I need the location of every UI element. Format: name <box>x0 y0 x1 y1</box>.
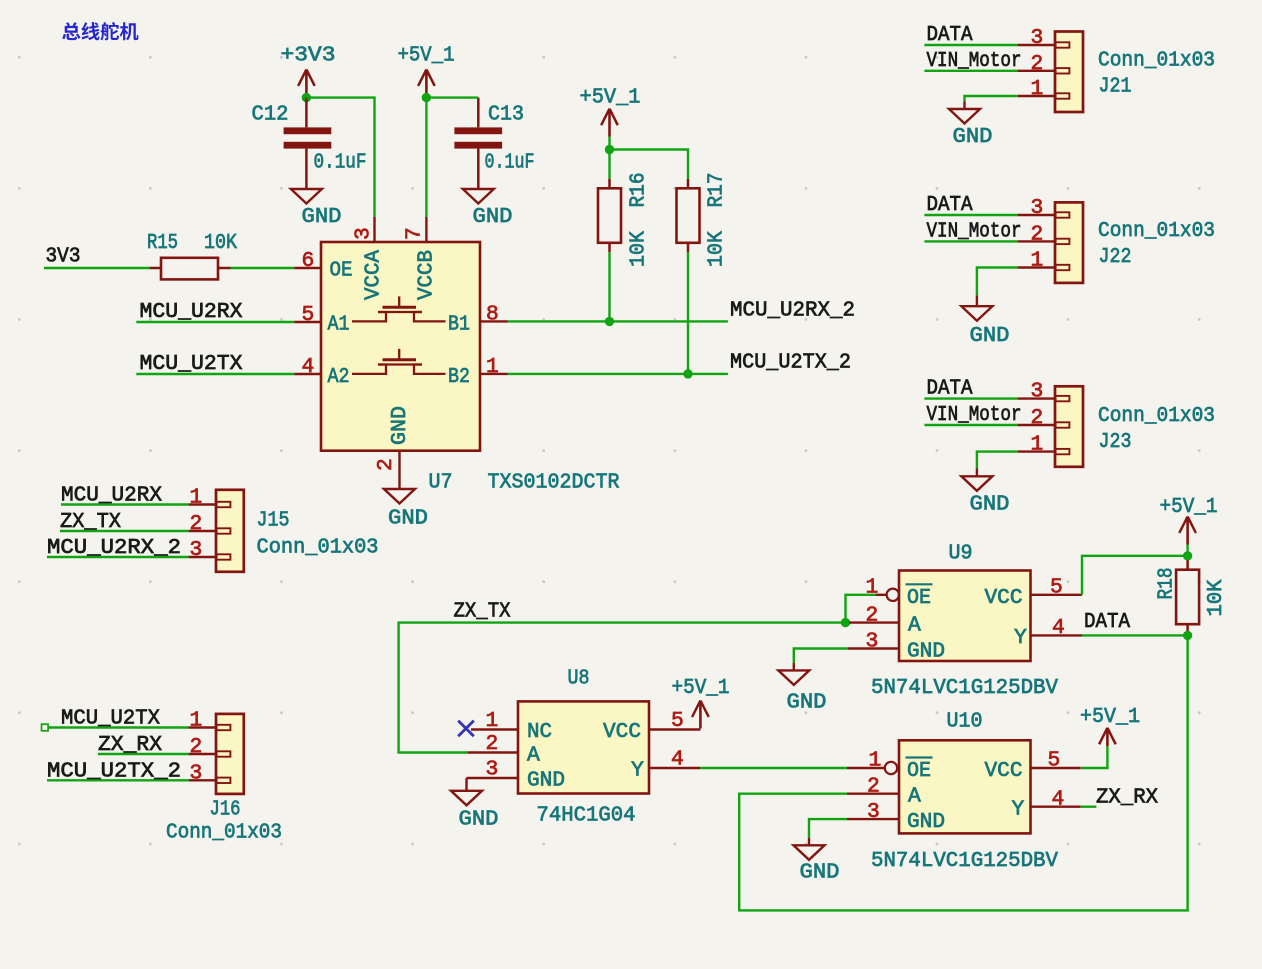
J16 pin 3 wire MCU_U2TX_2 <box>47 761 216 785</box>
junction R17/B2 node <box>683 369 692 378</box>
U10 pin 1 OE bubble <box>847 749 897 775</box>
svg-text:VIN_Motor: VIN_Motor <box>927 403 1022 427</box>
wire ZX_TX net <box>399 623 846 753</box>
svg-text:J15: J15 <box>257 509 290 533</box>
svg-text:ZX_RX: ZX_RX <box>1096 786 1158 810</box>
power symbol +5V_1 (U7) <box>418 69 435 97</box>
svg-text:DATA: DATA <box>927 23 973 47</box>
svg-text:3: 3 <box>866 630 879 654</box>
svg-text:B1: B1 <box>448 313 470 337</box>
junction +5V_1 U7 node <box>422 93 431 102</box>
svg-text:2: 2 <box>190 512 203 536</box>
svg-text:U10: U10 <box>947 710 983 734</box>
svg-text:GND: GND <box>459 808 499 832</box>
svg-text:+3V3: +3V3 <box>281 44 336 68</box>
wire R16 to B1 <box>608 252 610 321</box>
resistor R16 leads <box>608 179 611 252</box>
J22 pin 3 wire DATA <box>924 196 1055 220</box>
svg-text:DATA: DATA <box>927 377 973 401</box>
svg-text:MCU_U2TX: MCU_U2TX <box>140 352 243 376</box>
U9 pin 4 Y <box>1031 616 1083 640</box>
svg-text:2: 2 <box>1031 52 1044 76</box>
J22 pin 2 wire VIN_Motor <box>924 222 1055 246</box>
wire MCU_U2RX <box>136 321 294 323</box>
wire DATA loop to U10 A <box>739 635 1187 910</box>
svg-text:10K: 10K <box>1204 579 1228 616</box>
svg-text:1: 1 <box>1031 249 1044 273</box>
resistor R17 body <box>677 188 700 243</box>
svg-text:U8: U8 <box>568 667 590 691</box>
U10 pin 2 A <box>847 775 899 799</box>
svg-text:5: 5 <box>671 709 684 733</box>
U7 pin 5 A1 <box>294 303 321 327</box>
junction +5V_1/R18 node <box>1183 551 1192 560</box>
wire B2 net <box>508 373 728 375</box>
svg-text:10K: 10K <box>204 231 237 255</box>
svg-text:5: 5 <box>302 303 315 327</box>
svg-text:2: 2 <box>867 775 880 799</box>
svg-text:VIN_Motor: VIN_Motor <box>927 49 1022 73</box>
junction DATA/R18 node <box>1183 631 1192 640</box>
svg-text:+5V_1: +5V_1 <box>398 44 455 68</box>
U10 pin names <box>906 758 1025 835</box>
svg-text:A: A <box>527 744 540 768</box>
svg-text:VIN_Motor: VIN_Motor <box>927 219 1022 243</box>
svg-text:NC: NC <box>527 720 552 744</box>
svg-text:OE: OE <box>330 259 353 283</box>
svg-text:10K: 10K <box>627 231 651 267</box>
svg-text:2: 2 <box>190 735 203 759</box>
svg-text:4: 4 <box>1052 788 1065 812</box>
ground symbol J23 GND <box>961 476 1009 516</box>
U7 pin 2 GND <box>374 451 400 489</box>
U9 pin 2 A <box>849 604 899 628</box>
svg-text:3: 3 <box>1031 26 1044 50</box>
svg-text:+5V_1: +5V_1 <box>1160 495 1218 519</box>
U7 pin names <box>328 250 471 445</box>
IC U10 body <box>899 740 1031 833</box>
J21 pin 2 wire VIN_Motor <box>924 52 1055 76</box>
svg-text:Conn_01x03: Conn_01x03 <box>1098 404 1215 428</box>
wire junction to R16 <box>608 150 610 179</box>
U8 pin 3 GND <box>467 758 519 791</box>
svg-text:1: 1 <box>190 709 203 733</box>
svg-text:J22: J22 <box>1099 245 1132 269</box>
svg-text:GND: GND <box>527 769 565 793</box>
wire +5V_1 branch to R17 <box>610 150 689 179</box>
svg-text:VCC: VCC <box>603 720 641 744</box>
U8 pin 2 A <box>468 732 518 756</box>
wire R18 to DATA node <box>1186 633 1188 635</box>
wire MCU_U2TX <box>136 373 294 375</box>
junction R16/B1 node <box>605 317 614 326</box>
wire U8 Y to U10 pin1 <box>700 767 847 769</box>
U7 pin 1 B2 <box>480 355 508 379</box>
svg-text:3: 3 <box>867 800 880 824</box>
J23 pin 3 wire DATA <box>924 380 1055 404</box>
ground symbol J22 GND <box>961 306 1009 348</box>
svg-text:ZX_TX: ZX_TX <box>60 510 121 534</box>
svg-text:3: 3 <box>486 758 499 782</box>
wire U9 gnd link <box>794 649 848 664</box>
capacitor C12 <box>284 98 332 189</box>
svg-text:MCU_U2RX_2: MCU_U2RX_2 <box>47 536 181 560</box>
svg-text:1: 1 <box>869 749 882 773</box>
svg-text:4: 4 <box>1052 616 1065 640</box>
wire B1 net <box>508 320 728 322</box>
U8 pin 4 Y <box>649 748 700 772</box>
U9 pin 1 OE bubble <box>866 576 900 602</box>
svg-text:A: A <box>908 614 921 638</box>
svg-text:U9: U9 <box>949 542 973 566</box>
svg-text:1: 1 <box>1031 77 1044 101</box>
wire R17 to B2 <box>687 252 689 374</box>
svg-text:ZX_RX: ZX_RX <box>98 733 162 757</box>
svg-text:8: 8 <box>486 303 499 327</box>
svg-text:3: 3 <box>1031 196 1044 220</box>
svg-text:R18: R18 <box>1155 568 1179 600</box>
svg-text:GND: GND <box>302 205 342 229</box>
J22 pin 1 wire to GND <box>977 249 1055 307</box>
svg-text:3: 3 <box>1031 380 1044 404</box>
U7 pin 8 B1 <box>480 303 508 327</box>
svg-text:J16: J16 <box>210 798 241 822</box>
power symbol +3V3 <box>298 69 315 97</box>
IC U7 TXS0102DCTR body <box>321 242 480 451</box>
svg-text:10K: 10K <box>705 231 729 267</box>
svg-text:R16: R16 <box>627 173 651 208</box>
J23 pin 2 wire VIN_Motor <box>924 406 1055 430</box>
ground symbol J21 GND <box>949 109 993 149</box>
U10 gnd stub <box>808 838 810 845</box>
connector J22 body <box>1055 202 1083 283</box>
svg-text:1: 1 <box>1031 433 1044 457</box>
svg-text:OE: OE <box>907 759 931 783</box>
svg-text:Y: Y <box>1012 798 1025 822</box>
svg-text:0.1uF: 0.1uF <box>314 151 367 175</box>
U7 pin 3 VCCA <box>352 217 376 242</box>
ground symbol C12 GND <box>291 189 342 229</box>
ground symbol U10 GND <box>794 845 840 884</box>
svg-text:Y: Y <box>1014 626 1027 650</box>
svg-text:C12: C12 <box>252 103 289 127</box>
svg-text:0.1uF: 0.1uF <box>485 151 535 175</box>
IC U8 74HC1G04 body <box>518 701 649 793</box>
svg-text:1: 1 <box>486 355 499 379</box>
ground symbol C13 GND <box>463 189 513 229</box>
svg-text:2: 2 <box>866 604 879 628</box>
wire +3V3 to VCCA <box>306 98 374 217</box>
ground symbol U8 GND <box>451 791 499 832</box>
svg-text:GND: GND <box>907 640 945 664</box>
svg-text:GND: GND <box>907 810 945 834</box>
svg-text:VCC: VCC <box>985 759 1023 783</box>
svg-text:B2: B2 <box>448 365 470 389</box>
wire U10 gnd link <box>809 819 847 838</box>
J21 pin 3 wire DATA <box>924 26 1055 50</box>
svg-text:A2: A2 <box>328 365 350 389</box>
wire +5V_1 to C13 <box>426 96 478 98</box>
junction +3V3 node <box>302 93 311 102</box>
svg-text:1: 1 <box>190 486 203 510</box>
wire U10 VCC to +5V_1 <box>1081 746 1108 768</box>
connector J16 body <box>216 714 244 794</box>
pass transistor U7 ch2 <box>352 349 446 374</box>
U7 pin 4 A2 <box>294 355 321 379</box>
svg-text:R17: R17 <box>705 173 729 208</box>
svg-text:4: 4 <box>671 748 684 772</box>
U7 pin 7 VCCB <box>403 217 427 242</box>
dangling wire end square (J16 pin1) <box>42 724 49 731</box>
J23 pin 1 wire to GND <box>977 433 1055 477</box>
svg-text:2: 2 <box>1031 406 1044 430</box>
no-connect X (U8 pin1) <box>458 721 474 737</box>
J21 pin 1 wire to GND <box>965 77 1056 109</box>
svg-text:+5V_1: +5V_1 <box>1080 705 1140 729</box>
svg-text:A1: A1 <box>328 313 350 337</box>
svg-text:MCU_U2TX_2: MCU_U2TX_2 <box>47 759 181 783</box>
pass transistor U7 ch1 <box>352 296 446 321</box>
U9 pin 3 GND <box>848 630 899 654</box>
U8 pin 1 NC <box>471 709 518 733</box>
power symbol +5V_1 (U8) <box>692 701 709 729</box>
junction +5V_1 R16/R17 node <box>605 145 614 154</box>
ground symbol U7 GND <box>384 489 428 531</box>
U8 pin names <box>527 720 644 793</box>
resistor R18 body <box>1176 570 1199 625</box>
svg-text:R15: R15 <box>147 231 178 255</box>
svg-text:MCU_U2RX_2: MCU_U2RX_2 <box>730 299 855 323</box>
power symbol +5V_1 (R18) <box>1179 517 1196 545</box>
svg-text:3: 3 <box>190 761 203 785</box>
svg-text:+5V_1: +5V_1 <box>672 676 730 700</box>
svg-text:Y: Y <box>631 759 644 783</box>
svg-text:TXS0102DCTR: TXS0102DCTR <box>488 471 620 495</box>
resistor R16 body <box>598 188 621 243</box>
connector J15 body <box>216 490 244 572</box>
sheet title 总线舵机 <box>62 22 138 41</box>
svg-text:GND: GND <box>800 861 840 885</box>
svg-text:OE: OE <box>907 586 931 610</box>
svg-text:5N74LVC1G125DBV: 5N74LVC1G125DBV <box>871 849 1058 873</box>
svg-text:VCC: VCC <box>985 586 1023 610</box>
wire U9 VCC to +5V_1 <box>1082 556 1188 595</box>
svg-text:MCU_U2TX_2: MCU_U2TX_2 <box>730 351 851 375</box>
J15 pin 1 wire MCU_U2RX <box>61 486 216 510</box>
svg-text:ZX_TX: ZX_TX <box>454 600 511 624</box>
svg-text:Conn_01x03: Conn_01x03 <box>257 536 379 560</box>
svg-text:GND: GND <box>787 691 827 715</box>
svg-text:3V3: 3V3 <box>46 245 81 269</box>
resistor R15 body <box>161 258 218 280</box>
svg-text:GND: GND <box>953 125 993 149</box>
svg-text:C13: C13 <box>488 103 524 127</box>
J16 pin 1 wire MCU_U2TX <box>48 709 216 733</box>
svg-text:DATA: DATA <box>1084 610 1130 634</box>
U10 pin 4 Y <box>1031 788 1081 812</box>
svg-text:GND: GND <box>473 205 513 229</box>
svg-text:3: 3 <box>190 538 203 562</box>
svg-text:2: 2 <box>486 732 499 756</box>
IC U9 body <box>899 571 1031 662</box>
svg-text:GND: GND <box>970 324 1010 348</box>
svg-text:5: 5 <box>1050 576 1063 600</box>
svg-text:MCU_U2RX: MCU_U2RX <box>61 484 162 508</box>
svg-text:GND: GND <box>388 507 428 531</box>
power symbol +5V_1 (U10) <box>1099 728 1116 746</box>
svg-text:2: 2 <box>1031 222 1044 246</box>
svg-text:5N74LVC1G125DBV: 5N74LVC1G125DBV <box>871 676 1058 700</box>
U9 pin 5 VCC <box>1031 576 1083 600</box>
svg-text:VCCA: VCCA <box>362 250 386 300</box>
svg-text:J23: J23 <box>1099 430 1132 454</box>
svg-text:A: A <box>908 785 921 809</box>
svg-text:Conn_01x03: Conn_01x03 <box>1098 49 1215 73</box>
svg-text:1: 1 <box>866 576 879 600</box>
J16 pin 2 wire ZX_RX <box>98 735 216 759</box>
connector J23 body <box>1055 386 1083 467</box>
power symbol +5V_1 (R16) <box>601 109 618 137</box>
U9 pin names <box>906 584 1028 663</box>
wire U9 pin1 link <box>846 595 876 623</box>
svg-text:DATA: DATA <box>927 193 973 217</box>
U7 pin 6 OE <box>294 249 321 273</box>
wire R15 to pin6 <box>231 267 295 269</box>
U8 pin 5 VCC <box>649 709 700 733</box>
svg-text:5: 5 <box>1048 749 1061 773</box>
resistor R17 leads <box>687 179 690 252</box>
resistor R18 leads <box>1186 560 1189 633</box>
U10 pin 3 GND <box>847 800 899 824</box>
U9 gnd stub <box>793 663 795 670</box>
J15 pin 3 wire MCU_U2RX_2 <box>47 538 216 562</box>
J15 pin 2 wire ZX_TX <box>60 512 216 536</box>
capacitor C13 <box>454 98 502 189</box>
connector J21 body <box>1055 32 1083 113</box>
svg-text:VCCB: VCCB <box>415 250 439 300</box>
svg-text:7: 7 <box>403 227 427 240</box>
svg-text:3: 3 <box>352 227 376 240</box>
svg-text:GND: GND <box>388 406 412 445</box>
svg-text:MCU_U2RX: MCU_U2RX <box>140 300 243 324</box>
U10 pin 5 VCC <box>1031 749 1081 773</box>
svg-text:GND: GND <box>970 493 1010 517</box>
ground symbol U9 GND <box>778 670 826 714</box>
svg-text:J21: J21 <box>1099 75 1132 99</box>
svg-text:U7: U7 <box>429 471 453 495</box>
svg-text:Conn_01x03: Conn_01x03 <box>1098 219 1215 243</box>
wire +5V_1 to VCCB <box>425 98 427 217</box>
junction ZX_TX/U9 node <box>841 618 850 627</box>
svg-text:4: 4 <box>302 355 315 379</box>
svg-text:MCU_U2TX: MCU_U2TX <box>61 707 160 731</box>
svg-text:+5V_1: +5V_1 <box>580 86 641 110</box>
svg-text:1: 1 <box>486 709 499 733</box>
wire ZX_RX stub <box>1081 806 1097 808</box>
svg-text:6: 6 <box>302 249 315 273</box>
resistor R15 leads <box>149 267 230 270</box>
svg-text:2: 2 <box>374 458 398 471</box>
wire DATA net <box>1082 634 1188 636</box>
svg-text:Conn_01x03: Conn_01x03 <box>166 821 282 845</box>
wire +5V_1 to R18 <box>1186 545 1188 561</box>
svg-text:74HC1G04: 74HC1G04 <box>537 804 636 828</box>
wire 3V3 to R15 <box>44 267 149 269</box>
wire +5V_1 stem to junction <box>608 137 610 150</box>
